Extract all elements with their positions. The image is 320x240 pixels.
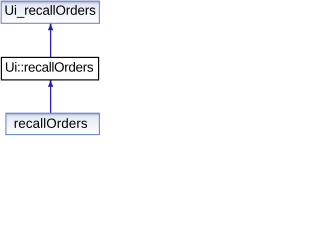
- background: [0, 0, 102, 136]
- node Ui::recallOrders (middle box, current class): [1, 57, 98, 80]
- node recallOrders (bottom box): [6, 113, 100, 134]
- inheritance arrow 1 (Ui::recallOrders -> Ui_recallOrders): [48, 24, 53, 58]
- inheritance arrow 2 (recallOrders -> Ui::recallOrders): [48, 80, 53, 113]
- node Ui_recallOrders (top box): [1, 1, 99, 23]
